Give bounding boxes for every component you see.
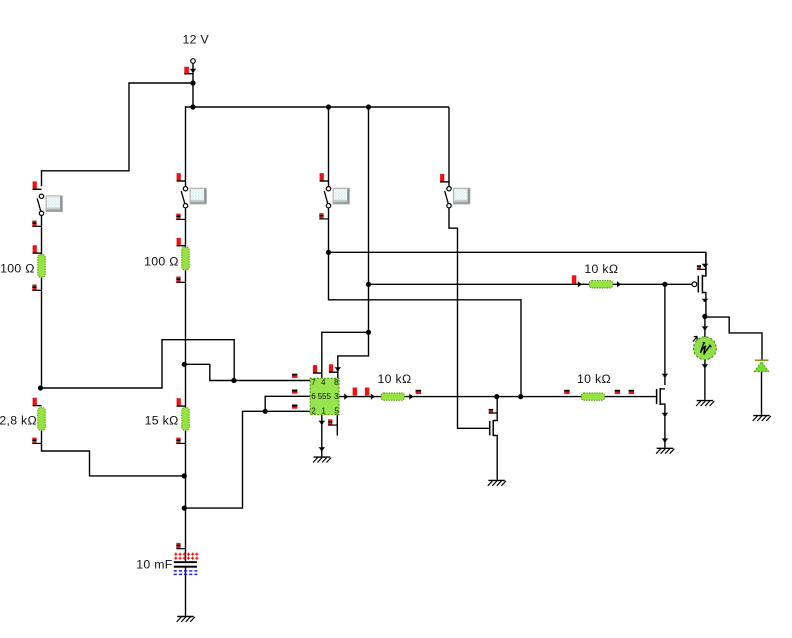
marker after R7 b (629, 390, 634, 394)
svg-text:2: 2 (311, 406, 316, 415)
marker R5 top (177, 398, 186, 407)
ground (555 pin1) (313, 457, 331, 462)
wire P-gate junction down to Q3 drain (664, 284, 666, 385)
wire junction to pin 8 (338, 332, 369, 378)
wire S3 node to P-MOSFET drain (329, 252, 706, 276)
wire rail to switch S4 (448, 107, 450, 186)
marker S3 top (320, 173, 329, 182)
junction node switch S3 top (326, 104, 331, 109)
switch S4 (445, 187, 470, 208)
arrow before R6 (371, 394, 375, 400)
marker R4 top (33, 398, 42, 407)
marker before R7 (564, 390, 569, 394)
svg-text:5: 5 (334, 406, 339, 415)
junction node pin2/6 tie (263, 409, 268, 414)
marker pin8 top (329, 364, 338, 373)
wire top rail left branch (42, 83, 194, 186)
junction node pin4/8 rail (366, 104, 371, 109)
wire meter to ground (704, 360, 706, 400)
wire pin7 junction into pin 7 (234, 380, 310, 382)
junction node B (R4 bottom) (182, 473, 187, 478)
marker pin5 (328, 419, 337, 425)
arrow after R3 (617, 281, 621, 287)
marker pin2 flag (292, 405, 297, 409)
current bar pin3 b (365, 388, 369, 396)
wire jog rail to second column (186, 107, 194, 186)
arrow Q2 source (702, 299, 709, 302)
wire R4 bottom to node B (42, 431, 186, 476)
resistor R5 15 kohm (182, 408, 189, 431)
ground (LED) (753, 416, 771, 421)
wire junction to pin 4 (322, 332, 369, 378)
resistor R6 10 kΩ (381, 393, 404, 400)
marker after R6 (416, 390, 421, 394)
capacitor C1 10 mF (174, 553, 199, 575)
ground (meter) (696, 401, 714, 406)
arrow Q2 drain (702, 264, 709, 267)
wire switch S1 to resistor R1 (41, 216, 43, 255)
svg-text:555: 555 (318, 392, 332, 401)
svg-text:10 mF: 10 mF (136, 558, 173, 572)
current bar pin3 a (353, 388, 357, 396)
MOSFET Q3 (657, 388, 661, 405)
wire rail to switch S3 (328, 107, 330, 186)
arrow meter top (702, 326, 709, 329)
svg-text:4: 4 (321, 378, 326, 387)
resistor R4 2.8 kohm (38, 408, 45, 431)
wire switch S3 down and over to output net (329, 208, 522, 397)
wire Q1 drain (493, 397, 497, 421)
wire capacitor to ground (185, 567, 187, 616)
arrow Q3 source lower (662, 439, 669, 442)
arrow Q3 source (662, 413, 669, 416)
wire pin 6 tap (265, 396, 310, 411)
marker after R7 a (615, 390, 620, 394)
junction node pin4/8 (366, 330, 371, 335)
wire junction to LED D1 (705, 317, 762, 359)
marker R5 bottom (176, 438, 185, 444)
svg-text:6: 6 (311, 392, 316, 401)
wire Q1 source to ground (493, 436, 497, 480)
resistor R7 10 kΩ (581, 393, 604, 400)
wire 555 pin 1 to ground (321, 415, 323, 457)
junction node pin7 tie (231, 378, 236, 383)
svg-text:7: 7 (311, 378, 316, 387)
junction node rail-terminal (190, 80, 195, 85)
arrow Q3 drain (662, 374, 669, 377)
resistor R3 10 kΩ (589, 281, 612, 288)
marker R1 top (33, 245, 42, 254)
wire pullup net to P-MOSFET gate (369, 283, 692, 285)
marker C1 top (176, 543, 185, 549)
svg-text:8: 8 (334, 378, 339, 387)
marker pin6 flag (292, 390, 297, 394)
wire 15k top junction to pin7 junction (186, 364, 234, 380)
svg-text:3: 3 (334, 392, 339, 401)
wire R5 bottom to capacitor (185, 431, 187, 562)
junction node Q1 drain (494, 394, 499, 399)
MOSFET Q2 p-channel (692, 275, 702, 294)
IC U1 555 (310, 378, 339, 415)
junction node Q2 source (702, 314, 707, 319)
wire main 12V rail (193, 106, 449, 108)
meter M1 (693, 336, 716, 359)
marker S2 bottom (176, 214, 185, 220)
arrow pin1 wire lower (318, 447, 325, 450)
arrow after R6 (409, 394, 413, 400)
wire R2 to R5 column (185, 270, 187, 407)
marker S3 bottom (319, 213, 328, 219)
arrow into pin8 (334, 367, 341, 370)
junction node 15k top (182, 362, 187, 367)
wire switch S4 to Q1 gate (449, 208, 490, 429)
marker pin4 top (313, 365, 322, 374)
wire Q2 source to output junction (702, 293, 706, 317)
marker R4 bottom (32, 438, 41, 444)
marker S1 bottom (32, 221, 41, 227)
arrow out of pin 3 (344, 394, 348, 400)
wire node A to pin7 junction (41, 340, 235, 388)
arrow pin1 wire upper (318, 421, 325, 424)
current bar before R3 (572, 275, 576, 283)
marker R1 bottom (32, 285, 41, 291)
marker S2 top (177, 173, 186, 182)
ground (capacitor) (177, 617, 195, 622)
marker pin7 flag (292, 374, 297, 378)
junction node A (R1/R4) (38, 385, 43, 390)
wire junction to meter M1 (704, 316, 706, 337)
marker R2 bottom (176, 277, 185, 283)
wire 555 output through 10k resistors to Q3 gate (339, 396, 657, 398)
MOSFET Q1 (490, 420, 494, 436)
battery terminal 12V (184, 59, 196, 75)
arrow before R3 (578, 281, 582, 287)
svg-text:1: 1 (321, 406, 326, 415)
switch S1 (37, 194, 62, 215)
wire node B to pins 2/6 (186, 411, 311, 508)
arrow meter bottom (702, 364, 709, 367)
wire Q3 drain lead (660, 388, 665, 390)
wire LED to ground (761, 372, 763, 415)
svg-text:10 kΩ: 10 kΩ (577, 372, 611, 386)
switch S2 (181, 187, 206, 208)
wire Q3 source to ground (660, 404, 665, 448)
svg-text:100 Ω: 100 Ω (0, 261, 35, 275)
svg-text:10 kΩ: 10 kΩ (378, 372, 412, 386)
LED D1 (754, 360, 768, 371)
junction node P-gate tie (662, 282, 667, 287)
junction node pullup rail (366, 282, 371, 287)
resistor R2 100 ohm (182, 247, 189, 270)
ground (Q1 source) (488, 480, 506, 485)
wire R1 to node A (41, 278, 43, 388)
junction node cap top (182, 506, 187, 511)
wire 555 pin 5 stub (336, 415, 338, 436)
wire switch S2 to resistor R2 (185, 208, 187, 248)
marker Q2 drain (697, 265, 706, 270)
wire 12V terminal down to rail (192, 63, 194, 107)
switch S3 (324, 187, 349, 208)
ground (Q3 source) (656, 448, 674, 453)
junction node rail main (190, 104, 195, 109)
wire rail to pin4/8 junction (368, 107, 370, 332)
wire P-MOSFET Q2 drain lead (702, 252, 706, 276)
junction node S3 bottom (326, 250, 331, 255)
marker R2 top (177, 238, 186, 247)
svg-text:100 Ω: 100 Ω (144, 254, 179, 268)
junction node output tie (518, 394, 523, 399)
svg-text:10 kΩ: 10 kΩ (584, 262, 618, 276)
marker S1 top (33, 181, 42, 190)
resistor R1 100 ohm (38, 255, 45, 278)
svg-text:2,8 kΩ: 2,8 kΩ (0, 413, 37, 427)
marker Q1 drain (489, 409, 498, 414)
svg-text:15 kΩ: 15 kΩ (145, 413, 179, 427)
svg-text:12 V: 12 V (183, 32, 210, 46)
marker S4 top (440, 174, 449, 183)
